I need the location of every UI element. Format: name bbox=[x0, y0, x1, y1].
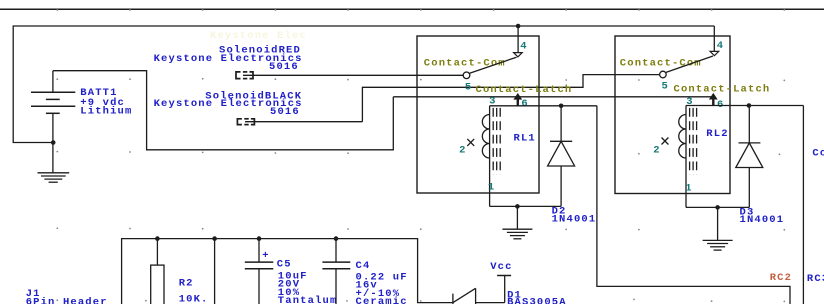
contact arm RL2 bbox=[660, 51, 719, 77]
sheet border top bbox=[0, 8, 824, 10]
svg-text:Vcc: Vcc bbox=[490, 261, 512, 273]
svg-text:1N4001: 1N4001 bbox=[740, 214, 785, 226]
svg-text:BAS3005A: BAS3005A bbox=[507, 296, 567, 304]
svg-text:1: 1 bbox=[488, 182, 495, 194]
pin 6 arrow RL2 bbox=[709, 93, 718, 106]
no-connect X RL1 pin 2 bbox=[467, 139, 474, 146]
battery BATT1 bbox=[31, 71, 75, 173]
node D2 top bbox=[559, 104, 564, 109]
relay RL2 box bbox=[615, 36, 730, 194]
node C5 tap bbox=[257, 236, 262, 241]
svg-text:1: 1 bbox=[685, 182, 692, 194]
diode D2 bbox=[548, 106, 575, 207]
node battery junction bbox=[51, 140, 56, 145]
ground (battery) bbox=[38, 173, 70, 182]
svg-text:10K.: 10K. bbox=[179, 293, 209, 304]
svg-text:RC3: RC3 bbox=[807, 273, 824, 285]
capacitor C4 bbox=[322, 239, 350, 304]
svg-text:C5: C5 bbox=[277, 259, 292, 271]
svg-text:Contact-Com: Contact-Com bbox=[424, 57, 506, 69]
svg-text:Ceramic: Ceramic bbox=[356, 296, 408, 304]
svg-text:5: 5 bbox=[465, 81, 472, 93]
wire SolenoidBLACK to RL2 com bbox=[362, 75, 659, 122]
wire down from D2 node to bottom block bbox=[597, 106, 790, 304]
svg-text:2: 2 bbox=[653, 145, 660, 157]
node RL1 ground junction bbox=[515, 204, 520, 209]
ground (RL1) bbox=[502, 206, 532, 238]
connector SolenoidBLACK 5016 bbox=[237, 119, 362, 125]
svg-text:5: 5 bbox=[662, 81, 669, 93]
no-connect X RL2 pin 2 bbox=[662, 138, 669, 145]
diode D1 (schottky, clipped) bbox=[453, 288, 505, 304]
svg-text:RC2: RC2 bbox=[770, 272, 792, 284]
wire drop to RL1 contact pin 4 bbox=[517, 26, 519, 53]
wire latch bus bbox=[393, 96, 713, 98]
node D3 top bbox=[747, 103, 752, 108]
wire drop to RL2 contact pin 4 bbox=[713, 26, 715, 51]
svg-text:Co: Co bbox=[812, 148, 824, 160]
svg-text:5016: 5016 bbox=[270, 106, 300, 118]
wire RL1 coil top to D2 bbox=[490, 105, 597, 107]
wire battery positive to latch bus bbox=[53, 71, 393, 150]
node R2 tap bbox=[155, 236, 160, 241]
svg-text:Contact-Latch: Contact-Latch bbox=[476, 84, 573, 96]
ground (RL2) bbox=[703, 207, 733, 250]
svg-text:4: 4 bbox=[717, 40, 724, 52]
svg-text:RL2: RL2 bbox=[706, 128, 728, 140]
contact arm RL1 bbox=[463, 53, 522, 79]
diode D3 bbox=[736, 106, 763, 208]
node top bus junction bbox=[516, 24, 521, 29]
connector SolenoidRED 5016 bbox=[236, 72, 463, 79]
node RL2 ground junction bbox=[715, 205, 720, 210]
svg-text:6: 6 bbox=[521, 98, 528, 110]
resistor R2 bbox=[151, 239, 164, 304]
capacitor C5 bbox=[245, 239, 273, 304]
node mid tap bbox=[212, 236, 217, 241]
relay coil RL1 bbox=[482, 106, 500, 207]
wire mid drop bbox=[214, 239, 216, 304]
svg-text:+: + bbox=[262, 250, 269, 262]
svg-text:Keystone Elec: Keystone Elec bbox=[210, 30, 307, 42]
svg-text:R2: R2 bbox=[179, 278, 194, 290]
svg-text:C4: C4 bbox=[356, 260, 371, 272]
svg-text:Contact-Com: Contact-Com bbox=[620, 58, 702, 70]
node C4 tap bbox=[334, 236, 339, 241]
svg-text:Tantalum: Tantalum bbox=[278, 295, 338, 304]
relay RL1 box bbox=[417, 36, 539, 193]
svg-text:6Pin Header: 6Pin Header bbox=[26, 297, 108, 304]
svg-text:1N4001: 1N4001 bbox=[552, 213, 597, 225]
relay coil RL2 bbox=[679, 106, 697, 208]
power Vcc bbox=[497, 276, 511, 303]
svg-text:2: 2 bbox=[459, 145, 466, 157]
wire right edge down bbox=[802, 106, 804, 304]
pin 6 arrow RL1 bbox=[513, 93, 522, 106]
wire RL2 coil bottom bbox=[686, 206, 749, 208]
svg-text:5016: 5016 bbox=[269, 61, 299, 73]
svg-text:4: 4 bbox=[520, 40, 527, 52]
wire RL2 coil top to D3 bbox=[686, 105, 803, 107]
wire battery negative loop bbox=[13, 26, 714, 143]
svg-text:Contact-Latch: Contact-Latch bbox=[674, 84, 771, 96]
svg-text:Lithium: Lithium bbox=[80, 106, 132, 118]
svg-text:RL1: RL1 bbox=[514, 132, 536, 144]
wire RL1 coil bottom bbox=[490, 205, 561, 207]
wire bottom power bus bbox=[122, 239, 453, 304]
